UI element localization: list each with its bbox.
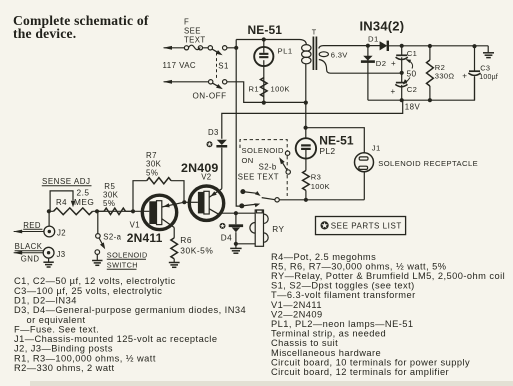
svg-text:Miscellaneous hardware: Miscellaneous hardware — [271, 348, 381, 358]
wire DC negative to amplifier — [222, 100, 403, 189]
switch S2-a — [97, 211, 99, 233]
relay RY coil — [250, 210, 268, 246]
label R6 30K-5% — [180, 235, 213, 256]
wire B+ top rail junctions — [428, 44, 432, 48]
binding post J2 — [14, 231, 44, 233]
label SOLENOID SWITCH — [107, 251, 148, 270]
svg-text:D1: D1 — [368, 34, 379, 43]
svg-text:R6: R6 — [180, 235, 192, 245]
svg-text:PL2: PL2 — [319, 146, 335, 156]
svg-text:Chassis to suit: Chassis to suit — [271, 338, 338, 348]
wire coil bottom — [236, 243, 255, 245]
svg-text:the device.: the device. — [13, 26, 76, 41]
wire B- rail (18V) — [368, 78, 475, 101]
svg-text:RY: RY — [272, 225, 284, 234]
label R1 100K — [249, 85, 290, 94]
svg-text:J1—Chassis-mounted 125-volt ac: J1—Chassis-mounted 125-volt ac receptacl… — [14, 334, 217, 344]
ground S2-a — [96, 254, 98, 260]
wire main input — [97, 210, 133, 212]
svg-text:T: T — [312, 27, 317, 36]
svg-text:SEE: SEE — [184, 27, 201, 36]
resistor R2 — [427, 46, 434, 100]
star marker D4 — [220, 223, 226, 229]
svg-text:SEE PARTS LIST: SEE PARTS LIST — [331, 222, 402, 231]
svg-text:GND: GND — [21, 255, 40, 264]
capacitor C2 — [395, 83, 407, 87]
node R2 bottom — [428, 98, 432, 102]
node R4 right — [95, 209, 99, 213]
svg-text:2N409: 2N409 — [181, 161, 219, 175]
neon lamp PL2 — [296, 138, 316, 158]
capacitor C1 — [396, 55, 408, 59]
svg-text:100K: 100K — [311, 182, 330, 191]
svg-text:R4—Pot, 2.5 megohms: R4—Pot, 2.5 megohms — [271, 252, 376, 262]
linkage S1 dashed — [216, 53, 218, 79]
arrow AC hot — [163, 46, 172, 50]
node C1 top — [400, 44, 404, 48]
transistor V2 — [189, 186, 223, 220]
svg-text:S1, S2—Dpst toggles (see text): S1, S2—Dpst toggles (see text) — [271, 281, 415, 291]
node S1 top out — [234, 46, 238, 50]
svg-text:R2—330 ohms, 2 watt: R2—330 ohms, 2 watt — [14, 363, 115, 373]
wire C1 stack — [401, 46, 403, 100]
svg-text:50: 50 — [407, 69, 417, 79]
resistor R1 — [261, 78, 268, 97]
svg-text:S2-b: S2-b — [259, 163, 277, 172]
svg-text:D3: D3 — [208, 128, 219, 137]
svg-text:Circuit board, 12 terminals fo: Circuit board, 12 terminals for amplifie… — [271, 367, 449, 377]
capacitor C3 — [468, 46, 480, 100]
bottom edge shadow — [30, 381, 513, 386]
wire to J1 — [306, 128, 365, 200]
title caption — [13, 13, 149, 41]
svg-text:R1, R3—100,000 ohms, ½ watt: R1, R3—100,000 ohms, ½ watt — [14, 353, 156, 363]
node R1 bottom — [262, 101, 266, 105]
diode D1 — [380, 41, 388, 50]
node D4 top — [234, 211, 238, 215]
ground J3 — [48, 258, 50, 262]
svg-text:330Ω: 330Ω — [435, 72, 455, 81]
relay contacts — [239, 203, 244, 208]
svg-text:+: + — [391, 59, 396, 68]
svg-text:+: + — [391, 87, 396, 96]
binding post J3 — [14, 252, 44, 254]
label R7 30K 5% — [146, 151, 162, 177]
svg-text:TEXT: TEXT — [184, 36, 206, 45]
svg-text:SEE TEXT: SEE TEXT — [238, 173, 279, 182]
node C2 bottom — [400, 98, 404, 102]
svg-text:SWITCH: SWITCH — [107, 261, 138, 270]
svg-text:J2, J3—Binding posts: J2, J3—Binding posts — [14, 344, 113, 354]
dashed box solenoid-on — [240, 140, 287, 196]
svg-text:100K: 100K — [271, 85, 290, 94]
svg-text:RY—Relay, Potter & Brumfield L: RY—Relay, Potter & Brumfield LM5, 2,500-… — [271, 271, 505, 281]
svg-text:D1, D2—IN34: D1, D2—IN34 — [14, 296, 77, 306]
svg-text:18V: 18V — [405, 102, 421, 111]
wire secondary top to D1 — [380, 45, 488, 47]
svg-text:SOLENOID RECEPTACLE: SOLENOID RECEPTACLE — [378, 159, 478, 168]
svg-text:NE-51: NE-51 — [248, 23, 283, 37]
switch S1 pole b — [209, 80, 227, 88]
svg-text:C3: C3 — [480, 63, 490, 72]
svg-text:30K-5%: 30K-5% — [180, 246, 213, 256]
transistor V1 — [142, 195, 176, 229]
svg-text:F: F — [184, 18, 189, 27]
label R5 30K 5% — [103, 182, 119, 208]
svg-text:MEG: MEG — [74, 197, 94, 207]
svg-text:ON-OFF: ON-OFF — [193, 91, 227, 100]
svg-text:J2: J2 — [57, 229, 66, 238]
parts list left column — [14, 276, 246, 373]
svg-text:SOLENOID: SOLENOID — [107, 251, 148, 260]
node D2 top — [366, 44, 370, 48]
svg-text:5%: 5% — [146, 169, 158, 178]
diode D4 — [235, 213, 237, 224]
node primary bottom — [304, 101, 308, 105]
switch S1 pole a — [208, 46, 227, 54]
svg-text:C1, C2—50 µf, 12 volts, electr: C1, C2—50 µf, 12 volts, electrolytic — [14, 276, 176, 286]
wire primary top — [236, 40, 306, 45]
potentiometer R4 — [54, 208, 93, 215]
arrow AC neutral — [163, 80, 172, 84]
svg-text:D4: D4 — [221, 233, 232, 242]
parts list right column — [271, 252, 505, 377]
svg-text:RED: RED — [23, 221, 41, 230]
diode D3 — [217, 140, 227, 145]
svg-text:SOLENOID: SOLENOID — [242, 146, 285, 155]
svg-text:+: + — [462, 71, 467, 80]
svg-text:V2: V2 — [201, 173, 211, 182]
see parts list box — [316, 217, 406, 235]
svg-text:R4: R4 — [56, 198, 67, 207]
resistor R7 — [133, 181, 184, 212]
svg-text:2N411: 2N411 — [127, 231, 163, 245]
svg-text:Circuit board, 10 terminals fo: Circuit board, 10 terminals for power su… — [271, 357, 470, 367]
svg-text:PL1: PL1 — [278, 47, 293, 56]
receptacle J1 — [355, 153, 374, 172]
wire line A (hot feed down) — [236, 40, 239, 207]
svg-text:6.3V: 6.3V — [331, 50, 348, 59]
transformer T secondary — [319, 46, 402, 74]
switch S2-b — [282, 151, 291, 174]
resistor R3 — [303, 171, 310, 191]
label 2.5 MEG — [74, 188, 94, 207]
fuse F — [184, 45, 202, 50]
node R4 left — [47, 209, 51, 213]
node mid C1C2 — [400, 71, 404, 75]
svg-text:D3, D4—General-purpose germani: D3, D4—General-purpose germanium diodes,… — [14, 305, 246, 315]
diode D2 — [367, 46, 369, 100]
svg-text:100µf: 100µf — [479, 74, 498, 81]
svg-text:BLACK: BLACK — [15, 242, 43, 251]
resistor R6 — [173, 228, 175, 238]
svg-text:J1: J1 — [372, 143, 381, 152]
svg-text:V2—2N409: V2—2N409 — [271, 309, 323, 319]
label F SEE TEXT (fuse) — [184, 18, 206, 45]
svg-text:S2-a: S2-a — [103, 232, 121, 241]
svg-text:V1—2N411: V1—2N411 — [271, 300, 322, 310]
svg-text:SENSE ADJ: SENSE ADJ — [42, 177, 91, 186]
star marker D3 — [207, 141, 213, 147]
wire V2 emitter to coil — [219, 212, 256, 214]
svg-text:IN34(2): IN34(2) — [360, 19, 405, 34]
label R2 330 — [435, 63, 455, 81]
node D4 bottom — [234, 242, 238, 246]
wire 117VAC neutral (bottom) — [164, 82, 306, 103]
node J1 branch — [304, 126, 308, 130]
svg-text:R3: R3 — [311, 172, 322, 181]
wire 117VAC hot (top) — [164, 47, 237, 49]
svg-text:R1: R1 — [249, 85, 260, 94]
wire PL2 feed — [305, 103, 307, 138]
svg-text:R5, R6, R7—30,000 ohms, ½ watt: R5, R6, R7—30,000 ohms, ½ watt, 5% — [271, 261, 447, 271]
node PL1 top — [262, 37, 266, 41]
svg-text:S1: S1 — [218, 62, 229, 71]
svg-text:J3: J3 — [57, 250, 66, 259]
ground D4 — [235, 244, 237, 248]
ground top right — [487, 46, 489, 53]
node R3 bottom — [304, 198, 308, 202]
svg-text:5%: 5% — [103, 199, 115, 208]
svg-text:T—6.3-volt filament transforme: T—6.3-volt filament transformer — [271, 290, 416, 300]
svg-text:ON: ON — [242, 156, 254, 165]
svg-text:117 VAC: 117 VAC — [163, 61, 197, 70]
wire contacts to J1 — [279, 199, 364, 201]
svg-text:Terminal strip, as needed: Terminal strip, as needed — [271, 329, 386, 339]
neon lamp PL1 — [254, 40, 273, 104]
svg-text:F—Fuse. See text.: F—Fuse. See text. — [14, 324, 99, 334]
label R3 100K — [311, 172, 330, 191]
label SOLENOID ON — [242, 146, 285, 165]
svg-text:V1: V1 — [130, 220, 140, 229]
svg-text:C3—100 µf, 25 volts, electroly: C3—100 µf, 25 volts, electrolytic — [14, 286, 162, 296]
resistor R5 — [97, 210, 133, 212]
node V2 base — [182, 200, 186, 204]
svg-text:C2: C2 — [407, 85, 418, 94]
node V1 base — [131, 209, 135, 213]
svg-text:or equivalent: or equivalent — [27, 315, 86, 325]
svg-text:30K: 30K — [146, 160, 162, 169]
transformer T primary — [302, 45, 311, 103]
svg-text:D2: D2 — [376, 59, 387, 68]
svg-text:PL1, PL2—neon lamps—NE-51: PL1, PL2—neon lamps—NE-51 — [271, 319, 414, 329]
svg-text:C1: C1 — [407, 49, 418, 58]
transformer T core — [313, 37, 316, 71]
ground R6 — [169, 263, 180, 268]
